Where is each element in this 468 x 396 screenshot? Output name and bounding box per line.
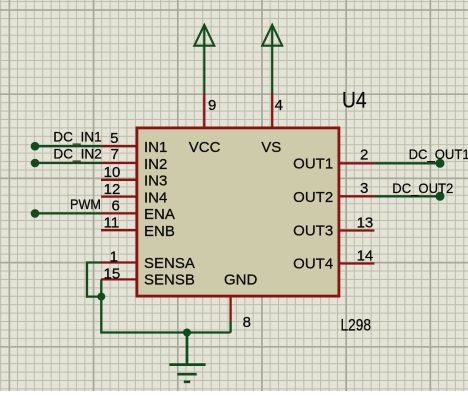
svg-text:OUT2: OUT2	[293, 189, 333, 206]
svg-text:6: 6	[111, 198, 119, 215]
wire from VCC power symbol to pin 9	[203, 26, 205, 93]
pin 8 stub (GND bottom)	[229, 296, 231, 320]
svg-text:ENA: ENA	[144, 206, 175, 223]
svg-text:12: 12	[104, 181, 121, 198]
IC U4 body	[137, 128, 339, 296]
junction dot at ground symbol	[183, 329, 191, 337]
svg-text:8: 8	[243, 314, 251, 331]
junction dot on SENSB wire	[97, 293, 105, 301]
terminal dot DC_IN2	[31, 159, 40, 168]
svg-text:10: 10	[104, 164, 121, 181]
svg-text:OUT3: OUT3	[293, 222, 333, 239]
svg-text:SENSA: SENSA	[144, 255, 195, 272]
svg-text:7: 7	[110, 146, 118, 163]
svg-text:DC_OUT1: DC_OUT1	[409, 146, 468, 162]
svg-text:15: 15	[104, 266, 121, 283]
svg-text:PWM: PWM	[70, 196, 101, 212]
terminal dot PWM	[31, 209, 40, 218]
wire from VS power symbol to pin 4	[271, 26, 273, 93]
pin 15 stub (SENSB)	[101, 278, 137, 280]
pin 9 stub (VCC top)	[203, 93, 205, 128]
svg-text:IN4: IN4	[144, 189, 167, 206]
power symbol VS (up arrow)	[262, 25, 282, 46]
svg-text:DC_IN2: DC_IN2	[53, 146, 102, 162]
wire net DC_OUT1	[374, 162, 440, 164]
svg-text:14: 14	[357, 247, 374, 264]
svg-text:DC_IN1: DC_IN1	[53, 128, 102, 144]
svg-text:SENSB: SENSB	[144, 272, 195, 289]
svg-text:IN3: IN3	[144, 173, 167, 190]
ground symbol	[169, 333, 205, 382]
wire net DC_OUT2	[374, 195, 440, 197]
svg-text:DC_OUT2: DC_OUT2	[392, 180, 453, 196]
terminal dot DC_IN1	[31, 142, 40, 151]
pin 6 stub (ENA)	[101, 212, 137, 214]
power symbol VCC (up arrow)	[194, 25, 214, 46]
svg-text:1: 1	[110, 248, 118, 265]
svg-text:3: 3	[360, 180, 368, 197]
svg-text:13: 13	[357, 214, 374, 231]
svg-text:4: 4	[275, 97, 283, 114]
svg-text:VS: VS	[261, 139, 281, 156]
svg-text:9: 9	[208, 97, 216, 114]
svg-text:GND: GND	[224, 272, 258, 289]
terminal dot DC_OUT2	[436, 192, 445, 201]
wire net DC_IN1	[35, 145, 101, 147]
pin 7 stub (IN2)	[101, 162, 137, 164]
svg-text:OUT1: OUT1	[293, 155, 333, 172]
svg-text:L298: L298	[341, 317, 372, 335]
pin 1 stub (SENSA)	[101, 261, 137, 263]
svg-text:OUT4: OUT4	[293, 255, 333, 272]
pin 12 stub (IN4)	[101, 195, 137, 197]
svg-text:IN2: IN2	[144, 156, 167, 173]
wire from pin 15 SENSB to ground run	[101, 279, 230, 332]
svg-text:U4: U4	[342, 88, 367, 113]
wire net DC_IN2	[35, 162, 101, 164]
svg-text:IN1: IN1	[144, 139, 167, 156]
wire from ground run up to pin 8	[229, 320, 231, 332]
wire net PWM	[35, 212, 101, 214]
svg-text:ENB: ENB	[144, 223, 175, 240]
pin 14 stub (OUT4)	[338, 262, 374, 264]
wire from pin 1 SENSA down to SENSB net	[87, 263, 101, 297]
svg-text:2: 2	[360, 147, 368, 164]
pin 2 stub (OUT1)	[338, 162, 374, 164]
svg-text:5: 5	[110, 130, 118, 147]
pin 10 stub (IN3)	[101, 179, 137, 181]
svg-text:11: 11	[104, 215, 120, 232]
pin 3 stub (OUT2)	[338, 195, 374, 197]
pin 11 stub (ENB)	[101, 229, 137, 231]
pin 13 stub (OUT3)	[338, 229, 374, 231]
terminal dot DC_OUT1	[436, 159, 445, 168]
svg-text:VCC: VCC	[189, 139, 221, 156]
pin 5 stub (IN1)	[101, 145, 137, 147]
pin 4 stub (VS top)	[271, 93, 273, 128]
